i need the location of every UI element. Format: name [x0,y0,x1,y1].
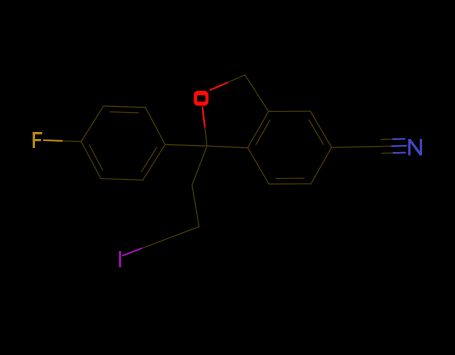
atom label N [408,139,422,156]
fluorophenyl ring [145,108,165,145]
atom label F [33,132,43,148]
benzo ring [269,110,311,112]
atom label O [194,91,209,106]
bond C1-O [205,127,207,146]
bond Ca-Cb chain [192,185,199,226]
nitrile triple bond C#N [377,145,392,147]
bond C5-Cnitrile [332,146,378,149]
bond C7a-C1 [207,146,248,148]
bond C3-C3a [245,75,269,112]
bond Cb-Cc chain [160,227,199,242]
bond O-C3 [210,83,227,91]
bond ring-C1 [165,145,207,147]
bond C1-Ca chain [192,146,207,185]
bond C3a-C7a fused [248,111,269,147]
benzo double bond inner lines [309,120,323,145]
atom label I [119,251,121,267]
fluorophenyl double bond inner lines [110,112,139,113]
bond Cc-I (purple half) [141,242,160,249]
bond F-ring (gold half) [44,139,63,142]
